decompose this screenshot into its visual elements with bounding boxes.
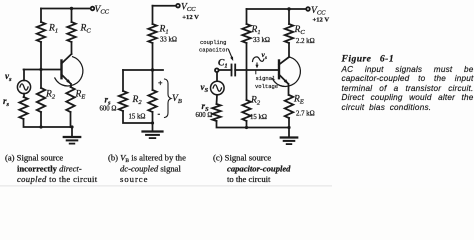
svg-text:+12 V: +12 V [182, 14, 199, 21]
svg-text:(c) Signal source: (c) Signal source [213, 153, 271, 163]
svg-text:33 kΩ: 33 kΩ [253, 37, 270, 44]
svg-text:600 Ω: 600 Ω [100, 106, 117, 113]
svg-text:15 kΩ: 15 kΩ [129, 114, 146, 121]
svg-text:to the circuit: to the circuit [227, 174, 271, 184]
svg-text:voltage: voltage [255, 83, 278, 90]
svg-text:incorrectly direct-: incorrectly direct- [17, 164, 82, 174]
svg-text:capacitor-coupled: capacitor-coupled [227, 164, 291, 174]
svg-text:-: - [158, 110, 161, 119]
svg-text:(b) VB is altered by the: (b) VB is altered by the [108, 153, 186, 165]
svg-text:2.7 kΩ: 2.7 kΩ [296, 111, 315, 118]
svg-text:(a) Signal source: (a) Signal source [5, 153, 63, 163]
svg-text:+: + [158, 79, 163, 88]
svg-text:15 kΩ: 15 kΩ [250, 114, 267, 121]
svg-text:coupling: coupling [200, 39, 226, 46]
svg-text:capacitor: capacitor [199, 47, 229, 54]
svg-text:signal: signal [256, 75, 276, 82]
svg-text:2.2 kΩ: 2.2 kΩ [296, 38, 315, 45]
svg-text:dc-coupled signal: dc-coupled signal [120, 164, 181, 174]
svg-text:600 Ω: 600 Ω [196, 112, 213, 119]
svg-text:source: source [120, 174, 148, 184]
svg-text:coupled to the circuit: coupled to the circuit [17, 174, 98, 184]
svg-text:33 kΩ: 33 kΩ [160, 37, 177, 44]
svg-text:+12 V: +12 V [313, 17, 330, 24]
